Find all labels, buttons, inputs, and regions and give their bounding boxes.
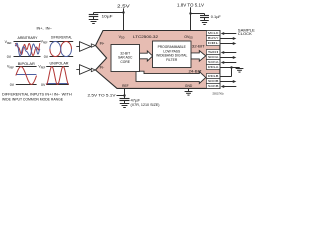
svg-text:WIDE INPUT COMMON MODE RANGE: WIDE INPUT COMMON MODE RANGE	[2, 98, 63, 102]
svg-text:2.5V: 2.5V	[117, 3, 130, 8]
svg-text:SCKB: SCKB	[208, 84, 219, 88]
wire 24-bit elbow block arrow to port B	[136, 71, 206, 83]
node OVDD junction	[189, 12, 191, 14]
node REF junction	[123, 94, 125, 96]
capacitor 0.1uF	[204, 14, 206, 16]
svg-text:UNIPOLAR: UNIPOLAR	[50, 62, 69, 66]
wire REF input	[117, 95, 125, 97]
svg-text:IN–: IN–	[100, 65, 105, 69]
svg-text:REF: REF	[122, 84, 129, 88]
svg-text:CORE: CORE	[120, 60, 130, 64]
wire junction to ground	[232, 67, 240, 69]
svg-text:IN+: IN+	[45, 92, 51, 96]
svg-text:2.5V TO 5.1V: 2.5V TO 5.1V	[88, 92, 116, 97]
ground (0.1uF)	[200, 20, 209, 22]
wire VDD supply vertical	[123, 8, 125, 31]
svg-text:24-BIT: 24-BIT	[189, 69, 202, 73]
block 32-BIT SAR ADC CORE	[111, 45, 140, 72]
svg-text:IN–: IN–	[46, 26, 52, 30]
ground (47uF)	[120, 103, 130, 105]
ground (GND pin)	[185, 91, 193, 93]
svg-text:IN+: IN+	[100, 42, 105, 46]
wire amp A2 to IN- open arrow	[91, 68, 95, 72]
pin box SDI	[206, 50, 220, 55]
svg-text:0.1µF: 0.1µF	[211, 14, 222, 19]
pin box SDOB	[206, 79, 220, 84]
wire amp A1 to IN+ open arrow	[91, 44, 95, 48]
wire block arrow ADC core to filter	[140, 51, 153, 61]
wire RDLA to ground junction	[220, 67, 231, 69]
wire MCLK input arrow	[224, 33, 236, 35]
svg-text:DIFFERENTIAL: DIFFERENTIAL	[51, 36, 72, 40]
op-amp driver A1	[80, 42, 91, 52]
svg-text:0V: 0V	[41, 83, 46, 87]
wire SDOA output arrow	[220, 57, 233, 59]
wire VDD supply horizontal to bypass cap	[94, 12, 124, 14]
svg-text:47µF: 47µF	[131, 98, 141, 102]
node VDD junction	[122, 11, 124, 13]
svg-text:32-BIT: 32-BIT	[192, 45, 205, 49]
svg-text:VREF: VREF	[41, 40, 49, 45]
pin box SCKB	[206, 84, 220, 89]
wire BUSY output arrow	[220, 38, 233, 40]
node RDLA/RDLB tie	[230, 66, 232, 68]
svg-text:SDI: SDI	[208, 50, 219, 54]
op-amp driver A2	[80, 65, 91, 75]
svg-text:MCLK: MCLK	[208, 31, 219, 35]
svg-text:VREF: VREF	[5, 40, 13, 45]
capacitor 47uF	[124, 96, 126, 99]
svg-text:DRL: DRL	[208, 41, 219, 45]
wire SDOB output arrow	[220, 81, 233, 83]
wire OVDD supply vertical	[190, 7, 192, 31]
svg-text:DIFFERENTIAL INPUTS: DIFFERENTIAL INPUTS	[2, 92, 45, 96]
capacitor 10uF	[93, 13, 95, 15]
wire SDI input arrow	[224, 52, 236, 54]
svg-text:SDOA: SDOA	[208, 55, 219, 59]
svg-text:VREF: VREF	[38, 65, 46, 70]
pin box MCLK	[206, 31, 220, 36]
svg-text:(X7R, 1210 SIZE): (X7R, 1210 SIZE)	[131, 103, 160, 107]
svg-text:0V: 0V	[10, 83, 15, 87]
svg-text:10µF: 10µF	[102, 13, 114, 18]
pin box SDOA	[206, 55, 220, 60]
wire 32-bit block arrow filter to port A	[191, 51, 206, 62]
svg-text:VREF: VREF	[7, 65, 15, 70]
svg-text:BUSY: BUSY	[208, 36, 219, 40]
svg-text:2500332 TA01a: 2500332 TA01a	[213, 92, 224, 95]
block PROGRAMMABLE LOW PASS WIDEBAND DIGITAL FILTER	[153, 41, 192, 68]
pin box DRL	[206, 41, 220, 46]
svg-text:IN–: IN–	[54, 92, 61, 96]
svg-text:SDOB: SDOB	[208, 79, 219, 83]
pin box RDLB	[206, 74, 220, 79]
chip LTC2500-32 body	[96, 31, 220, 89]
pin box SCKA	[206, 60, 220, 65]
ground (10uF)	[89, 19, 99, 21]
wire OVDD branch to 0.1uF	[191, 13, 205, 15]
pin box RDLA	[206, 65, 220, 70]
svg-text:FILTER: FILTER	[166, 58, 178, 62]
svg-text:GND: GND	[185, 84, 193, 88]
svg-text:1.8V TO 5.1V: 1.8V TO 5.1V	[177, 2, 204, 7]
wire DRL output arrow	[220, 43, 233, 45]
wire SCKA input arrow	[224, 62, 236, 64]
svg-text:RDLA: RDLA	[208, 65, 219, 69]
svg-text:WITH: WITH	[62, 92, 72, 96]
svg-text:IN+,: IN+,	[37, 26, 44, 30]
svg-text:RDLB: RDLB	[208, 74, 219, 78]
ground (RDLA/RDLB)	[236, 68, 244, 70]
svg-text:CLOCK: CLOCK	[238, 32, 253, 36]
svg-text:ARBITRARY: ARBITRARY	[18, 36, 39, 40]
wire SCKB input arrow	[224, 86, 236, 88]
wire RDLB tie	[220, 76, 231, 78]
svg-text:0V: 0V	[7, 55, 12, 59]
svg-text:BIPOLAR: BIPOLAR	[18, 62, 35, 66]
pin box BUSY	[206, 36, 220, 41]
svg-text:LTC2500-32: LTC2500-32	[133, 35, 158, 39]
wire GND pin stub	[188, 88, 190, 91]
svg-text:0V: 0V	[44, 55, 49, 59]
svg-text:SCKA: SCKA	[208, 60, 219, 64]
